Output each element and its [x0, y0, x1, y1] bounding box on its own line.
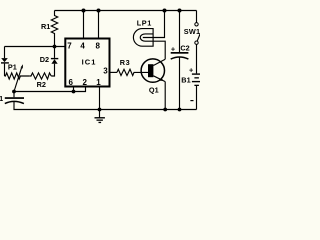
- svg-text:SW1: SW1: [184, 27, 200, 36]
- wire pin7 rail: [5, 46, 65, 48]
- wire SW1 to battery: [196, 44, 198, 73]
- wire C1 bottom to ground rail: [14, 101, 197, 109]
- potentiometer P1 track: [5, 73, 30, 79]
- svg-text:R2: R2: [37, 80, 46, 89]
- label B1 minus: [190, 100, 193, 101]
- switch SW1 lever: [197, 32, 201, 42]
- wire battery to ground rail: [196, 86, 198, 110]
- node lamp top junction: [163, 9, 167, 13]
- svg-text:P1: P1: [8, 62, 17, 71]
- transistor Q1: [141, 59, 164, 82]
- wire left column to D1: [4, 47, 6, 59]
- wire pins 2+6 rail: [14, 87, 86, 91]
- wire emitter to ground rail: [164, 82, 166, 110]
- svg-text:IC1: IC1: [82, 58, 97, 67]
- wire lamp base to collector: [153, 41, 165, 59]
- wire top rail: [55, 10, 197, 12]
- svg-text:C2: C2: [180, 44, 189, 53]
- potentiometer wiper arrow: [14, 68, 22, 92]
- resistor R3: [117, 69, 148, 75]
- diode D2: [51, 58, 58, 59]
- ground symbol: [99, 110, 101, 118]
- collector diagonal: [153, 59, 165, 65]
- svg-text:R3: R3: [120, 58, 130, 67]
- wire D2 stub from rail: [54, 47, 56, 58]
- svg-text:1: 1: [96, 78, 101, 87]
- wire pin4: [83, 11, 85, 39]
- capacitor C2: [171, 52, 189, 54]
- wire C2 stub from top rail: [179, 11, 181, 53]
- svg-text:7: 7: [67, 41, 72, 50]
- emitter diagonal: [153, 76, 165, 82]
- wire pin1 to ground: [99, 87, 101, 109]
- svg-text:Q1: Q1: [149, 86, 159, 95]
- wire pin3 to R3: [110, 71, 117, 73]
- svg-text:2: 2: [83, 78, 88, 87]
- node pin4 top: [82, 9, 86, 13]
- resistor R2: [30, 73, 52, 79]
- node C2/rail: [178, 108, 182, 112]
- lamp LP1 bulb envelope: [133, 29, 153, 47]
- svg-text:8: 8: [96, 41, 101, 50]
- emitter arrowhead: [160, 78, 164, 81]
- switch SW1 contact top: [195, 23, 198, 26]
- lamp LP1 base: [140, 34, 153, 41]
- wire D1 to P1 track: [4, 64, 6, 76]
- node pin6 junction: [72, 90, 76, 94]
- lamp LP1 center contact wire to top rail: [143, 11, 165, 38]
- switch SW1 contact bottom: [195, 41, 198, 44]
- wire C2 bottom to ground rail: [179, 57, 181, 110]
- node emitter/rail: [163, 108, 167, 112]
- svg-text:R1: R1: [41, 22, 50, 31]
- battery B1: [192, 73, 201, 74]
- IC timer U1 box IC1: [65, 39, 109, 87]
- wire D2 down to R2 corner: [51, 64, 54, 76]
- node junction R1/D2 on pin7 rail: [53, 45, 57, 49]
- svg-text:LP1: LP1: [137, 18, 152, 27]
- wire top-right corner down to SW1: [196, 11, 198, 23]
- capacitor C1: [13, 92, 15, 98]
- wire pin8: [98, 11, 100, 39]
- node wiper/C1 junction: [12, 90, 16, 94]
- svg-text:B1: B1: [181, 76, 190, 85]
- svg-text:4: 4: [80, 41, 85, 50]
- svg-text:3: 3: [103, 67, 108, 76]
- svg-text:+: +: [171, 44, 175, 53]
- node C2 top: [178, 9, 182, 13]
- svg-text:C1: C1: [0, 94, 3, 103]
- svg-text:D2: D2: [40, 55, 49, 64]
- wire pin6 stub: [73, 87, 75, 91]
- svg-text:6: 6: [69, 78, 74, 87]
- diode D1: [1, 58, 8, 62]
- resistor R1: [51, 11, 57, 47]
- svg-text:+: +: [189, 66, 193, 75]
- node pin8 top: [97, 9, 101, 13]
- node pin1 ground junction: [98, 108, 102, 112]
